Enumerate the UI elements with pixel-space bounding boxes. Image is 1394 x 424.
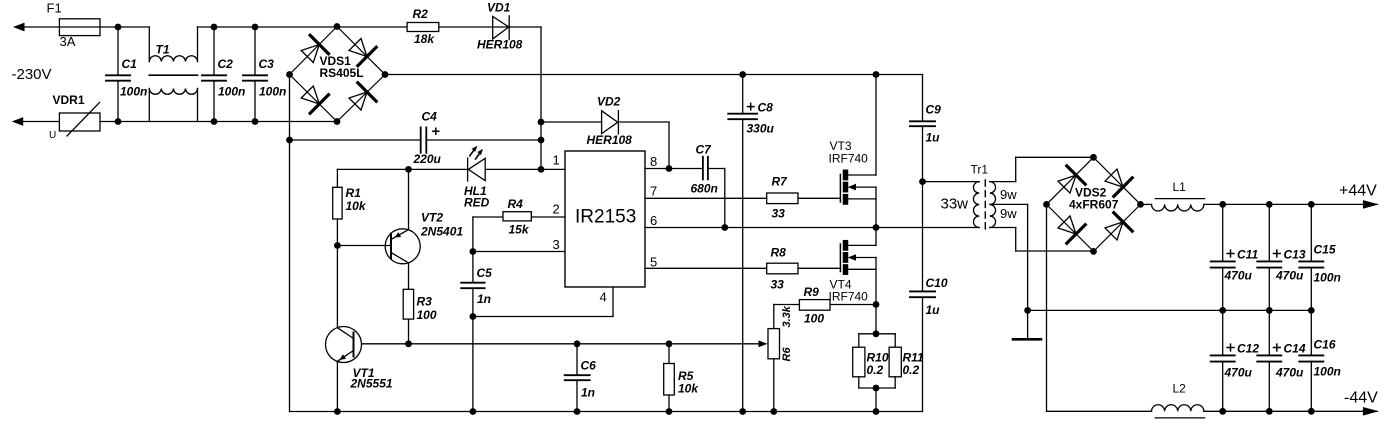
capacitor C11 bbox=[1211, 204, 1259, 310]
LED HL1 bbox=[464, 146, 490, 210]
resistor R4 bbox=[473, 197, 531, 237]
svg-text:HER108: HER108 bbox=[587, 133, 633, 147]
transformer Tr1 core bbox=[984, 180, 986, 229]
svg-text:C12: C12 bbox=[1237, 342, 1259, 356]
diode VDS1 bottom-left bbox=[301, 86, 328, 113]
bridge rectifier VDS2 diamond bbox=[1047, 157, 1141, 251]
svg-text:C8: C8 bbox=[758, 101, 774, 115]
svg-text:220u: 220u bbox=[413, 152, 442, 166]
svg-text:C6: C6 bbox=[581, 359, 597, 373]
input arrow top bbox=[13, 23, 25, 32]
svg-text:33: 33 bbox=[771, 278, 785, 292]
wire -44 rail bbox=[1204, 410, 1377, 412]
wire secondary bottom to VDS2 bbox=[990, 228, 1094, 252]
svg-text:15k: 15k bbox=[509, 223, 530, 237]
svg-text:-44V: -44V bbox=[1344, 390, 1378, 407]
svg-text:-230V: -230V bbox=[12, 66, 52, 83]
pin 7 wire and label bbox=[645, 184, 767, 199]
svg-text:L1: L1 bbox=[1173, 180, 1187, 194]
svg-text:R3: R3 bbox=[417, 295, 433, 309]
svg-text:10k: 10k bbox=[678, 382, 699, 396]
resistor R5 bbox=[664, 344, 700, 412]
diode VDS1 bottom-right bbox=[349, 83, 376, 110]
wire VD2 to pin8 bbox=[618, 122, 669, 169]
capacitor C12 bbox=[1211, 310, 1260, 411]
wire bbox=[23, 26, 59, 28]
pin 8 wire and label bbox=[645, 154, 725, 169]
svg-text:C4: C4 bbox=[422, 110, 438, 124]
VDS2 labels bbox=[1069, 186, 1119, 212]
svg-text:R2: R2 bbox=[413, 7, 429, 21]
svg-text:2N5401: 2N5401 bbox=[420, 225, 463, 239]
svg-text:VT2: VT2 bbox=[421, 211, 443, 225]
svg-text:9w: 9w bbox=[1000, 206, 1017, 221]
svg-text:C13: C13 bbox=[1284, 248, 1306, 262]
resistor R2 bbox=[407, 7, 439, 46]
pin 3 wire and label bbox=[473, 237, 565, 252]
svg-text:C16: C16 bbox=[1314, 338, 1336, 352]
svg-text:7: 7 bbox=[650, 184, 657, 199]
varistor VDR1 bbox=[49, 93, 100, 141]
svg-text:8: 8 bbox=[650, 154, 657, 169]
diode VD1 bbox=[477, 1, 523, 52]
transformer Tr1 primary bbox=[941, 163, 989, 228]
arrow -44V bbox=[1344, 390, 1379, 416]
svg-text:1: 1 bbox=[553, 153, 560, 168]
svg-text:3.3k: 3.3k bbox=[781, 305, 793, 327]
svg-text:100n: 100n bbox=[1314, 365, 1341, 379]
wire bbox=[100, 121, 337, 123]
svg-text:+44V: +44V bbox=[1339, 183, 1377, 200]
wire secondary top to VDS2 bbox=[990, 157, 1094, 181]
svg-text:470u: 470u bbox=[1275, 366, 1304, 380]
arrow +44V bbox=[1339, 183, 1379, 209]
diode VDS2 bottom-left bbox=[1058, 216, 1085, 243]
svg-text:33: 33 bbox=[772, 207, 786, 221]
svg-text:2: 2 bbox=[553, 202, 560, 217]
wire R1 node down to VT1 collector bbox=[336, 246, 338, 328]
wire VT1 base long line to R6 bbox=[362, 340, 768, 347]
bridge rectifier VDS1 diamond bbox=[290, 27, 386, 122]
svg-text:VDR1: VDR1 bbox=[53, 93, 85, 107]
wire mid 0V rail bbox=[1028, 309, 1312, 311]
capacitor C6 bbox=[565, 344, 596, 412]
resistor R10 R11 parallel pair bbox=[853, 305, 924, 412]
resistor R7 bbox=[767, 175, 841, 221]
capacitor C3 bbox=[243, 27, 286, 122]
pin 4 wire and label bbox=[473, 287, 613, 317]
svg-text:470u: 470u bbox=[1224, 366, 1253, 380]
wire negative rail from VDS1 left corner bbox=[289, 75, 291, 412]
svg-text:C2: C2 bbox=[218, 57, 234, 71]
fuse F1 bbox=[47, 1, 101, 50]
svg-text:2N5551: 2N5551 bbox=[350, 377, 393, 391]
svg-text:680n: 680n bbox=[691, 182, 718, 196]
op-amp U1 IR2153 box bbox=[565, 151, 645, 287]
svg-text:100n: 100n bbox=[218, 85, 245, 99]
capacitor C14 bbox=[1257, 310, 1306, 411]
transistor VT2 bbox=[385, 169, 463, 289]
svg-text:F1: F1 bbox=[47, 1, 62, 16]
svg-text:IRF740: IRF740 bbox=[829, 152, 869, 166]
capacitor C2 bbox=[202, 27, 245, 122]
diode VDS1 top-right bbox=[349, 39, 376, 66]
input arrow bottom bbox=[12, 117, 24, 126]
wire to VD2 bbox=[541, 121, 602, 123]
potentiometer R6 bbox=[768, 305, 793, 411]
svg-text:C14: C14 bbox=[1284, 342, 1306, 356]
ground bbox=[1013, 310, 1041, 339]
svg-text:IRF740: IRF740 bbox=[829, 290, 869, 304]
capacitor C1 bbox=[106, 27, 147, 122]
svg-text:0.2: 0.2 bbox=[903, 363, 920, 377]
svg-text:9w: 9w bbox=[1000, 187, 1017, 202]
diode VDS2 top-right bbox=[1105, 169, 1132, 196]
svg-text:VD2: VD2 bbox=[597, 95, 621, 109]
resistor R3 bbox=[403, 289, 437, 344]
svg-text:100: 100 bbox=[417, 308, 437, 322]
wire C9 mid to primary bbox=[923, 181, 980, 183]
diode VDS2 bottom-right bbox=[1105, 213, 1132, 240]
capacitor C15 bbox=[1299, 204, 1341, 310]
wire center tap to ground bbox=[990, 204, 1028, 310]
transformer Tr1 secondary bbox=[990, 182, 1017, 228]
svg-text:0.2: 0.2 bbox=[867, 363, 884, 377]
capacitor C4 bbox=[290, 110, 542, 167]
svg-text:100n: 100n bbox=[259, 85, 286, 99]
svg-text:C1: C1 bbox=[122, 57, 138, 71]
svg-text:RED: RED bbox=[464, 196, 490, 210]
svg-text:C9: C9 bbox=[926, 103, 942, 117]
svg-text:C15: C15 bbox=[1314, 243, 1336, 257]
wire +44 rail bbox=[1141, 203, 1378, 205]
pin 5 wire and label bbox=[645, 255, 767, 270]
svg-text:U: U bbox=[49, 130, 56, 141]
capacitor C16 bbox=[1299, 310, 1341, 411]
wire bbox=[100, 26, 149, 28]
svg-text:4xFR607: 4xFR607 bbox=[1069, 198, 1119, 212]
resistor R1 bbox=[333, 169, 367, 245]
pin 2 wire and label bbox=[531, 202, 565, 218]
svg-text:R8: R8 bbox=[771, 246, 787, 260]
capacitor C5 column bbox=[461, 217, 492, 412]
svg-text:R9: R9 bbox=[804, 285, 820, 299]
svg-text:R4: R4 bbox=[508, 197, 524, 211]
svg-text:VD1: VD1 bbox=[487, 1, 511, 15]
svg-text:L2: L2 bbox=[1173, 382, 1187, 396]
transistor Q VT3 IRF740 bbox=[829, 75, 877, 228]
capacitor C7 bbox=[691, 143, 725, 228]
svg-text:R6: R6 bbox=[781, 347, 793, 362]
capacitor C9 bbox=[910, 75, 941, 182]
transistor Q VT4 IRF740 bbox=[829, 228, 877, 305]
node -230V label bbox=[12, 66, 52, 83]
svg-text:10k: 10k bbox=[346, 199, 367, 213]
wire bbox=[22, 121, 60, 123]
svg-text:1n: 1n bbox=[477, 292, 491, 306]
svg-text:C7: C7 bbox=[696, 143, 713, 157]
svg-text:C10: C10 bbox=[926, 276, 948, 290]
transistor VT1 bbox=[326, 327, 393, 412]
capacitor C13 bbox=[1257, 204, 1306, 310]
svg-text:R1: R1 bbox=[346, 186, 362, 200]
svg-text:100: 100 bbox=[804, 312, 824, 326]
capacitor C10 bbox=[910, 182, 948, 412]
svg-text:470u: 470u bbox=[1224, 269, 1253, 283]
resistor R8 bbox=[767, 246, 841, 292]
svg-text:3: 3 bbox=[553, 237, 560, 252]
svg-text:33w: 33w bbox=[941, 196, 969, 213]
wire bbox=[198, 26, 542, 28]
inductor L2 bbox=[1152, 382, 1205, 418]
svg-text:6: 6 bbox=[650, 213, 657, 228]
svg-text:1u: 1u bbox=[926, 303, 941, 317]
svg-text:HER108: HER108 bbox=[477, 38, 523, 52]
diode VDS1 top-left bbox=[301, 35, 328, 62]
pin 6 wire and label bbox=[645, 213, 979, 228]
svg-text:C5: C5 bbox=[477, 266, 493, 280]
svg-text:1n: 1n bbox=[581, 386, 595, 400]
svg-text:C3: C3 bbox=[259, 57, 275, 71]
inductor L1 bbox=[1152, 180, 1205, 211]
svg-text:Tr1: Tr1 bbox=[971, 163, 989, 177]
wire VT2 base bbox=[337, 245, 390, 247]
svg-text:3A: 3A bbox=[60, 34, 76, 49]
wire bottom negative rail bbox=[290, 411, 923, 413]
svg-text:4: 4 bbox=[600, 290, 607, 305]
svg-text:100n: 100n bbox=[1314, 271, 1341, 285]
svg-text:330u: 330u bbox=[747, 122, 775, 136]
svg-text:470u: 470u bbox=[1275, 269, 1304, 283]
wire Vcc vertical bbox=[540, 27, 542, 169]
pin 1 label bbox=[553, 153, 560, 168]
svg-text:18k: 18k bbox=[414, 32, 435, 46]
capacitor C8 bus bbox=[728, 75, 774, 412]
diode VDS2 top-left bbox=[1058, 166, 1085, 193]
inductor T1 common-mode choke bbox=[149, 27, 197, 122]
wire pin1 line bbox=[337, 168, 565, 170]
wire DC+ top rail bbox=[385, 74, 923, 76]
svg-text:IR2153: IR2153 bbox=[575, 207, 636, 228]
svg-text:T1: T1 bbox=[156, 43, 170, 57]
VDS1 labels bbox=[320, 54, 364, 80]
svg-text:1u: 1u bbox=[926, 131, 941, 145]
resistor R9 bbox=[774, 285, 876, 329]
wire VDS2 left corner to -44 rail bbox=[1047, 204, 1152, 411]
svg-text:5: 5 bbox=[650, 255, 657, 270]
svg-text:100n: 100n bbox=[120, 85, 147, 99]
diode VD2 bbox=[587, 95, 633, 148]
svg-text:R7: R7 bbox=[772, 175, 789, 189]
svg-text:C11: C11 bbox=[1237, 248, 1258, 262]
svg-text:RS405L: RS405L bbox=[320, 66, 364, 80]
